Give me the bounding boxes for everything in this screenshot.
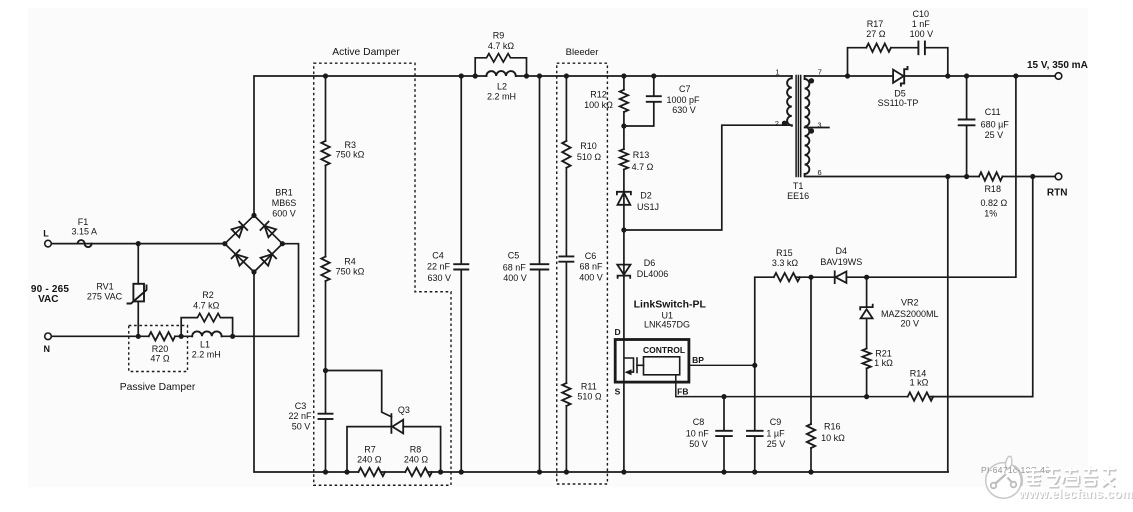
transformer polarity dots	[782, 121, 787, 126]
svg-text:27 Ω: 27 Ω	[866, 29, 886, 39]
svg-text:22 nF: 22 nF	[288, 411, 312, 421]
wire ground rail R7-R8	[381, 471, 406, 473]
svg-text:275 VAC: 275 VAC	[87, 292, 123, 302]
svg-text:R16: R16	[824, 422, 841, 432]
svg-text:T1: T1	[793, 181, 804, 191]
bridge diode upper-left	[231, 222, 247, 238]
wire C4 bottom	[460, 270, 462, 472]
junction dots clamp	[621, 123, 626, 128]
terminal L	[45, 240, 52, 247]
capacitor C3	[319, 414, 333, 419]
bridge diode lower-right	[260, 250, 276, 266]
junction dot fuse rail RV1	[136, 241, 141, 246]
svg-text:15 V, 350 mA: 15 V, 350 mA	[1027, 60, 1088, 71]
svg-text:100 V: 100 V	[910, 29, 934, 39]
svg-text:10 nF: 10 nF	[686, 429, 710, 439]
junction dot BP node	[752, 363, 757, 368]
capacitor C11	[966, 76, 968, 119]
svg-text:510 Ω: 510 Ω	[577, 392, 602, 402]
svg-text:6: 6	[818, 168, 822, 177]
wire C5 branch	[539, 76, 541, 264]
svg-text:CONTROL: CONTROL	[643, 345, 685, 355]
wire L1 to bridge corner	[222, 244, 299, 337]
wire C9 bottom	[754, 436, 756, 472]
wire R16 bottom	[810, 448, 812, 472]
resistor R14	[908, 392, 933, 400]
wire U1 BP pin	[689, 364, 755, 366]
svg-text:510 Ω: 510 Ω	[577, 152, 602, 162]
wire pin 3 stub	[805, 127, 829, 129]
svg-text:100 kΩ: 100 kΩ	[584, 100, 613, 110]
svg-text:20 V: 20 V	[901, 319, 920, 329]
junction dots pin6 rail	[945, 174, 950, 179]
zener VR2	[860, 305, 873, 319]
wire pin6 rail to RTN terminal	[1003, 176, 1056, 178]
resistor R20	[149, 332, 175, 340]
svg-text:3.3 kΩ: 3.3 kΩ	[772, 258, 799, 268]
svg-text:D2: D2	[640, 191, 652, 201]
svg-text:R9: R9	[493, 31, 505, 41]
junction dots N rail	[136, 334, 141, 339]
svg-text:C10: C10	[913, 9, 930, 19]
svg-text:Active Damper: Active Damper	[332, 47, 400, 58]
wire pin 7 output rail	[805, 75, 894, 77]
svg-text:R17: R17	[867, 19, 884, 29]
wire U1 S pin to ground rail	[623, 382, 625, 472]
wire clamp return to pin 2	[624, 125, 792, 230]
svg-text:US1J: US1J	[637, 202, 659, 212]
svg-text:1 kΩ: 1 kΩ	[910, 378, 929, 388]
watermark logo circle	[986, 457, 1022, 499]
svg-text:R7: R7	[364, 445, 376, 455]
svg-text:3.15 A: 3.15 A	[72, 226, 98, 236]
wire top rail L2 to transformer	[516, 75, 792, 77]
capacitor C9	[747, 431, 763, 436]
transformer T1 secondary winding	[805, 76, 810, 175]
bridge diode upper-right	[260, 222, 276, 238]
svg-text:R18: R18	[984, 184, 1001, 194]
svg-text:C11: C11	[985, 107, 1001, 117]
svg-text:68 nF: 68 nF	[503, 263, 527, 273]
svg-text:4.7 kΩ: 4.7 kΩ	[488, 41, 515, 51]
varistor RV1	[128, 284, 147, 304]
capacitor C6	[559, 256, 573, 261]
wire C8 branch	[723, 397, 725, 431]
U1 control block	[644, 357, 680, 375]
svg-text:2: 2	[775, 119, 779, 128]
fuse F1	[78, 240, 92, 247]
bridge diode lower-left	[232, 250, 248, 266]
IC U1 LinkSwitch-PL body	[615, 340, 689, 383]
resistor R3	[321, 141, 329, 166]
svg-text:47 Ω: 47 Ω	[150, 354, 170, 364]
svg-text:LNK457DG: LNK457DG	[644, 320, 690, 330]
svg-text:C5: C5	[508, 251, 520, 261]
wire D4 to output sense corner	[846, 76, 1016, 277]
svg-text:R8: R8	[410, 445, 422, 455]
capacitor C4	[454, 264, 468, 269]
wire top rail R3 branch	[325, 76, 327, 141]
svg-text:R10: R10	[580, 141, 597, 151]
wire R17 to C10	[891, 47, 918, 49]
resistor R16	[807, 424, 815, 448]
svg-text:2.2 mH: 2.2 mH	[487, 91, 516, 101]
resistor R10	[562, 141, 570, 168]
wire ground rail right section	[428, 471, 948, 473]
svg-text:R11: R11	[581, 382, 597, 392]
wire VR2 to R21	[866, 318, 868, 348]
wire C10 to rail corner	[925, 48, 948, 76]
svg-text:750 kΩ: 750 kΩ	[336, 267, 365, 277]
svg-text:RV1: RV1	[96, 282, 113, 292]
svg-text:C3: C3	[295, 401, 307, 411]
wire R15 left corner / BP-C9 vertical	[755, 277, 774, 430]
wire pin 6 rail	[805, 176, 979, 178]
svg-text:1 kΩ: 1 kΩ	[874, 358, 893, 368]
transformer T1 primary winding	[787, 76, 792, 126]
wire C3 to ground rail	[325, 419, 327, 472]
inductor L2	[486, 71, 515, 76]
svg-text:RTN: RTN	[1047, 188, 1068, 199]
wire secondary return vertical	[947, 177, 949, 472]
svg-text:R2: R2	[202, 290, 214, 300]
junction dots FB rail	[721, 394, 726, 399]
terminal 15V output	[1055, 73, 1062, 80]
svg-text:3: 3	[817, 121, 821, 130]
svg-text:MAZS2000ML: MAZS2000ML	[881, 309, 939, 319]
capacitor C8	[716, 431, 732, 436]
svg-text:750 kΩ: 750 kΩ	[336, 150, 365, 160]
svg-text:630 V: 630 V	[428, 273, 452, 283]
wire C8 bottom	[723, 436, 725, 472]
svg-text:0.82 Ω: 0.82 Ω	[981, 198, 1008, 208]
wire bridge top to top rail	[254, 76, 486, 215]
diode D6 DL4006	[617, 265, 630, 278]
resistor R9 parallel loop	[475, 54, 526, 76]
wire L input rail	[51, 243, 221, 245]
resistor R4	[321, 257, 329, 282]
junction dots bridge vertices	[222, 241, 227, 246]
resistor R15	[774, 273, 800, 281]
svg-text:R12: R12	[590, 90, 607, 100]
svg-text:EE16: EE16	[787, 191, 809, 201]
wire U1 FB pin	[676, 375, 908, 397]
svg-text:BR1: BR1	[275, 188, 293, 198]
svg-text:50 V: 50 V	[292, 422, 311, 432]
wire VR2 branch	[866, 277, 868, 307]
svg-text:10 kΩ: 10 kΩ	[821, 433, 845, 443]
watermark chinese characters	[1026, 466, 1116, 487]
svg-text:400 V: 400 V	[503, 273, 527, 283]
wire bridge bottom to ground rail	[254, 272, 358, 472]
resistor R7	[358, 468, 385, 476]
junction dots D4 rail	[808, 275, 813, 280]
diode D2 US1J	[617, 192, 631, 205]
svg-text:DL4006: DL4006	[637, 269, 669, 279]
svg-text:1 µF: 1 µF	[766, 429, 785, 439]
wire output rail to terminal	[904, 75, 1055, 77]
svg-text:400 V: 400 V	[579, 273, 603, 283]
svg-text:R21: R21	[875, 349, 892, 359]
resistor R2 parallel loop	[181, 313, 232, 336]
U1 MOSFET source arrow	[625, 369, 632, 375]
resistor R11	[562, 383, 570, 406]
svg-text:L: L	[43, 228, 49, 238]
bridge BR1 edges	[225, 215, 283, 272]
junction dots top rail	[323, 73, 328, 78]
svg-text:BAV19WS: BAV19WS	[820, 257, 862, 267]
svg-text:1 nF: 1 nF	[912, 19, 931, 29]
svg-text:C4: C4	[432, 251, 444, 261]
wire Q3 gate branch	[326, 371, 392, 417]
svg-text:R13: R13	[633, 150, 650, 160]
wire C5 bottom	[539, 270, 541, 472]
junction dot R4 bottom	[323, 368, 328, 373]
wire Q3 right leg to R8	[403, 427, 440, 472]
svg-text:C7: C7	[679, 84, 691, 94]
svg-text:1: 1	[775, 68, 779, 77]
junction dots ground rail	[323, 469, 328, 474]
resistor R21	[862, 349, 870, 369]
svg-text:D: D	[615, 327, 621, 337]
svg-text:2.2 mH: 2.2 mH	[192, 350, 221, 360]
wire R11 to ground rail	[565, 406, 567, 472]
wire D2 junction to D6	[623, 230, 625, 340]
resistor R18	[979, 172, 1003, 180]
wire C4 branch top	[460, 76, 462, 264]
transformer T1 core	[796, 76, 801, 177]
svg-text:Passive Damper: Passive Damper	[120, 382, 196, 393]
wire bleeder branch top	[565, 76, 567, 141]
dashed box Bleeder	[557, 63, 608, 484]
svg-text:C8: C8	[693, 417, 705, 427]
svg-text:22 nF: 22 nF	[427, 262, 451, 272]
capacitor C10	[918, 42, 925, 55]
dashed box Passive Damper	[129, 326, 188, 372]
snubber loop wire	[848, 48, 867, 76]
svg-text:600 V: 600 V	[272, 209, 296, 219]
wire R20 to L1	[175, 335, 192, 337]
svg-text:R15: R15	[776, 248, 793, 258]
svg-text:BP: BP	[692, 355, 704, 365]
svg-text:1000 pF: 1000 pF	[666, 95, 700, 105]
wire RV1 branch vertical	[137, 244, 139, 284]
wire R21 to FB rail	[866, 369, 868, 397]
svg-text:SS110-TP: SS110-TP	[878, 98, 919, 108]
dashed box Active Damper	[314, 63, 451, 485]
resistor R8	[405, 468, 432, 476]
diode D4 BAV19WS	[835, 271, 847, 283]
svg-text:240 Ω: 240 Ω	[357, 455, 382, 465]
svg-text:VR2: VR2	[901, 298, 919, 308]
terminal RTN	[1055, 173, 1062, 180]
svg-text:L1: L1	[200, 340, 210, 350]
terminal N	[45, 333, 52, 340]
svg-text:L2: L2	[497, 82, 507, 92]
svg-text:68 nF: 68 nF	[579, 262, 603, 272]
svg-text:Bleeder: Bleeder	[566, 47, 599, 58]
svg-text:240 Ω: 240 Ω	[404, 455, 429, 465]
svg-text:D6: D6	[644, 258, 656, 268]
svg-text:25 V: 25 V	[985, 130, 1004, 140]
inductor L1	[192, 331, 221, 336]
wire R15 to D4	[796, 276, 835, 278]
junction dots output rail	[845, 73, 850, 78]
svg-text:N: N	[44, 344, 51, 354]
svg-text:7: 7	[818, 68, 822, 77]
wire R10 to C6	[565, 168, 567, 256]
svg-text:R4: R4	[344, 257, 356, 267]
capacitor C5	[531, 264, 549, 269]
svg-text:www.elecfans.com: www.elecfans.com	[1018, 487, 1133, 501]
svg-text:C6: C6	[585, 251, 597, 261]
wire R3 to R4	[325, 165, 327, 256]
thyristor Q3	[391, 414, 403, 433]
wire R12 branch top	[623, 76, 625, 90]
wire R12 to R13	[623, 112, 625, 149]
wire Q3 left leg to R7	[347, 427, 391, 472]
svg-text:FB: FB	[677, 387, 688, 397]
svg-text:VAC: VAC	[38, 294, 58, 305]
wire R4 to C3	[325, 281, 327, 413]
diode D5 SS110-TP	[893, 67, 907, 86]
wire R13 to D2	[623, 170, 625, 231]
wire R14 to RTN drop	[929, 177, 1033, 397]
svg-text:25 V: 25 V	[767, 439, 786, 449]
svg-text:4.7 Ω: 4.7 Ω	[632, 162, 654, 172]
svg-text:LinkSwitch-PL: LinkSwitch-PL	[634, 299, 707, 311]
wire C6 to R11	[565, 262, 567, 383]
wire N input rail	[51, 335, 148, 337]
svg-text:630 V: 630 V	[672, 105, 696, 115]
wire R16 branch	[810, 277, 812, 424]
svg-text:MB6S: MB6S	[272, 198, 297, 208]
capacitor C7 branch	[653, 76, 655, 96]
svg-text:4.7 kΩ: 4.7 kΩ	[193, 301, 220, 311]
svg-text:S: S	[615, 387, 621, 397]
resistor R13	[620, 149, 628, 169]
svg-text:D4: D4	[836, 246, 848, 256]
resistor R17	[866, 44, 891, 52]
resistor R12	[620, 90, 628, 112]
svg-text:1%: 1%	[984, 208, 997, 218]
svg-text:50 V: 50 V	[689, 439, 708, 449]
svg-text:R20: R20	[152, 344, 169, 354]
U1 internal MOSFET	[624, 341, 634, 381]
svg-text:Q3: Q3	[398, 405, 410, 415]
svg-text:680 µF: 680 µF	[981, 120, 1010, 130]
svg-text:C9: C9	[770, 417, 782, 427]
